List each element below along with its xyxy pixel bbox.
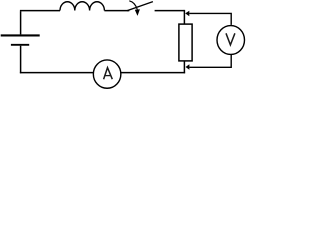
switch arrowhead [135, 9, 140, 16]
battery B1 long plate [1, 34, 40, 36]
wire bottom-left corner up to battery negative [20, 46, 22, 74]
ammeter A1 circle [93, 60, 121, 88]
switch actuation arc [129, 1, 137, 10]
voltmeter top arrowhead [185, 11, 189, 17]
voltmeter bottom arrowhead [186, 64, 190, 69]
wire resistor bottom to bottom wire [183, 61, 185, 73]
voltmeter V1 circle [217, 26, 245, 55]
ammeter label A [104, 68, 113, 80]
wire battery positive up to top-left corner [20, 11, 22, 34]
battery B1 short plate [11, 44, 29, 46]
inductor L1 [60, 2, 104, 11]
bottom wire right segment [121, 72, 185, 74]
wire switch to top-right corner [155, 10, 185, 12]
bottom wire left segment [20, 72, 93, 74]
resistor R1 [179, 24, 192, 61]
wire inductor to switch contact [104, 10, 129, 12]
voltmeter V1 top lead [189, 13, 231, 25]
voltmeter label V [226, 33, 235, 45]
wire top-right corner down to resistor [183, 10, 185, 24]
wire top-left to inductor [20, 10, 60, 12]
voltmeter V1 bottom lead [189, 55, 231, 67]
switch S1 blade [127, 2, 153, 11]
